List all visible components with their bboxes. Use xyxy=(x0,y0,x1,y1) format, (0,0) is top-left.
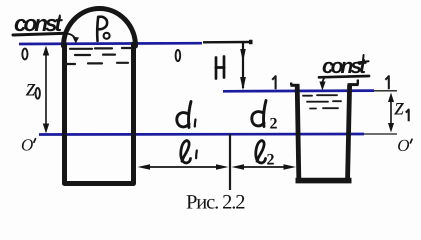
svg-text:const: const xyxy=(322,55,367,78)
svg-text:O: O xyxy=(21,135,33,154)
svg-text:2: 2 xyxy=(270,116,278,133)
svg-text:z: z xyxy=(394,94,405,121)
svg-text:O: O xyxy=(397,136,409,155)
svg-text:Рис. 2.2: Рис. 2.2 xyxy=(186,192,246,214)
svg-text:2: 2 xyxy=(267,152,275,169)
svg-text:z: z xyxy=(25,75,36,102)
